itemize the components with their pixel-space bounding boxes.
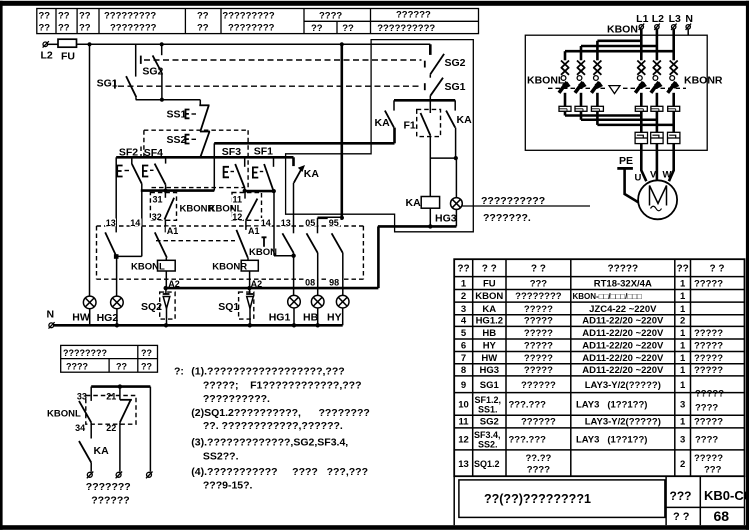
svg-text:N: N (47, 309, 55, 321)
svg-text:PE: PE (619, 155, 633, 167)
svg-text:LAY3 (1??1??): LAY3 (1??1??) (576, 435, 647, 446)
wire output 2 (656, 111, 659, 132)
contactor KBONL pole 2 (575, 61, 587, 107)
pin A1 left (166, 227, 179, 235)
svg-text:1: 1 (680, 417, 686, 428)
svg-text:???????: ??????? (86, 481, 131, 493)
svg-text:KBONR: KBONR (212, 262, 247, 273)
svg-text:?????: ????? (524, 341, 553, 352)
junction KA coil (428, 224, 432, 228)
terminal N (685, 13, 693, 30)
wire HY to N (342, 308, 344, 325)
table row 7 (461, 353, 723, 364)
svg-text:SF1: SF1 (254, 146, 273, 158)
linkage dashed coils (156, 240, 235, 242)
svg-text:??: ?? (39, 11, 51, 22)
contact KBON aux left (155, 232, 167, 257)
contactor KBONR pole 2 (651, 61, 663, 107)
wire output 1 (640, 111, 643, 132)
svg-text:SG2: SG2 (480, 417, 499, 428)
svg-text:SS2: SS2 (167, 134, 187, 146)
junction SQ1/N (248, 323, 252, 327)
svg-text:??????????.: ??????????. (203, 393, 270, 405)
svg-text:L1: L1 (636, 13, 648, 25)
svg-text:AD11-22/20 ~220V: AD11-22/20 ~220V (582, 328, 664, 339)
junction A2 right (247, 286, 251, 290)
svg-text:??????????: ?????????? (377, 23, 435, 34)
svg-text:KA: KA (406, 197, 422, 209)
svg-text:???: ??? (670, 489, 692, 503)
svg-text:HY: HY (327, 312, 342, 324)
svg-text:????????: ???????? (63, 348, 107, 358)
svg-text:1: 1 (680, 341, 686, 352)
linkage dashed aux (86, 396, 136, 425)
bus coil return (378, 225, 457, 228)
terminal L2 (41, 41, 53, 61)
linkage dashed SG2 (144, 59, 422, 61)
pin 95 (328, 218, 341, 227)
svg-text:(2)SQ1.2??????????, ?????: (2)SQ1.2??????????, ???????? (191, 407, 369, 419)
svg-text:???????.: ???????. (483, 212, 531, 224)
contact KA ladder (294, 157, 320, 183)
junction link (454, 156, 458, 160)
linkage symbol triangle (609, 86, 620, 94)
lamp HG2 (97, 296, 124, 324)
pin 05 (304, 218, 317, 227)
svg-text:HY: HY (483, 341, 497, 352)
wire HB to N (317, 308, 319, 325)
wire HG2 to N (116, 309, 118, 326)
wire 14 link (116, 255, 142, 257)
svg-text:U: U (635, 173, 642, 184)
svg-text:??????????: ?????????? (481, 195, 545, 207)
svg-text:??: ?? (311, 23, 323, 34)
svg-text:1: 1 (680, 291, 686, 302)
svg-text:FU: FU (61, 51, 75, 63)
contact KA left branch (375, 100, 395, 129)
svg-text:HG3: HG3 (435, 213, 457, 225)
svg-text:HW: HW (72, 312, 90, 324)
svg-text:?????: ????? (694, 365, 723, 376)
svg-text:??????: ?????? (521, 380, 556, 391)
terminal hook KBON (262, 237, 267, 246)
bus output merge 1 (565, 111, 641, 115)
wire coil/lamp link (430, 157, 456, 159)
contact F1 (404, 100, 441, 136)
bus 05/95 feed (318, 217, 343, 220)
table row 6 (461, 341, 723, 352)
svg-text:HW: HW (481, 353, 497, 364)
svg-text:JZC4-22 ~220V: JZC4-22 ~220V (589, 304, 657, 315)
svg-text:????: ???? (66, 362, 88, 372)
svg-text:SQ2: SQ2 (141, 301, 162, 313)
wire SF2 out (141, 184, 143, 257)
svg-text:9: 9 (461, 380, 466, 391)
overload element 3 (591, 106, 603, 111)
svg-text:????: ???? (319, 11, 342, 22)
title block (454, 476, 744, 525)
pin 14 left (130, 219, 142, 227)
svg-text:RT18-32X/4A: RT18-32X/4A (594, 279, 652, 290)
svg-text:3: 3 (461, 304, 466, 315)
svg-text:????????: ???????? (515, 291, 562, 302)
terminal N (47, 309, 55, 329)
legend table (61, 345, 158, 372)
svg-text:KBONL: KBONL (47, 409, 81, 420)
switch SS2 (167, 132, 211, 158)
svg-text:? ?: ? ? (482, 264, 497, 275)
svg-text:??: ?? (342, 23, 354, 34)
svg-text:2: 2 (680, 316, 685, 327)
contact KA aux (79, 441, 109, 463)
wire L3 drop (672, 29, 675, 60)
wire SF3 out (244, 188, 246, 191)
svg-text:8: 8 (461, 365, 466, 376)
svg-text:SF4: SF4 (144, 147, 163, 159)
limit switch SQ1 (218, 288, 254, 325)
svg-text:??: ?? (457, 264, 469, 275)
svg-text:????????: ???????? (228, 23, 275, 34)
svg-text:5: 5 (461, 328, 467, 339)
svg-text:3: 3 (680, 435, 685, 446)
junction aux top (118, 384, 122, 388)
wire to terminal 1 (90, 463, 92, 472)
wire to HG1 (293, 253, 295, 296)
svg-text:LAY3 (1??1??): LAY3 (1??1??) (576, 400, 647, 411)
svg-text:??.??: ??.?? (525, 453, 551, 464)
junction SF1 (272, 189, 276, 193)
svg-text:?????; F1????????????,???: ?????; F1????????????,??? (203, 379, 362, 391)
svg-text:68: 68 (714, 508, 730, 524)
wire 13-14 column (115, 157, 117, 232)
table row 5 (461, 328, 723, 339)
wire KBONR A2 (249, 271, 251, 288)
lamp HG1 (269, 295, 301, 323)
bus A2 (166, 287, 379, 290)
bus output merge 3 (597, 111, 673, 125)
wire F1 out (429, 135, 431, 196)
svg-text:08: 08 (305, 278, 315, 288)
ground PE (617, 155, 638, 202)
svg-text:98: 98 (329, 278, 339, 288)
svg-text:13: 13 (458, 459, 469, 470)
annotation leader line (462, 205, 590, 207)
svg-text:SS2??.: SS2??. (203, 451, 239, 463)
svg-text:?????: ????? (524, 316, 553, 327)
switch SG1 right (425, 74, 466, 96)
svg-text:?:: ?: (174, 366, 184, 378)
wire L2 to FU (48, 43, 58, 45)
svg-text:KBON: KBON (607, 24, 638, 36)
wire KA feeder column (340, 44, 343, 218)
wire top rail L (77, 43, 431, 45)
wire left bus (89, 44, 91, 296)
table row 1 (461, 279, 723, 290)
lamp HW (72, 296, 96, 323)
junction 13/14 right (291, 254, 295, 258)
pushbutton SF2 (117, 157, 142, 184)
bus SG1 out (394, 99, 455, 102)
svg-text:????????: ???????? (110, 23, 157, 34)
wire output 3 (672, 111, 675, 132)
svg-text:?????: ????? (694, 279, 723, 290)
terminal X3 (146, 472, 153, 479)
pushbutton enclosure top edge wire (214, 142, 394, 145)
svg-text:HG3: HG3 (480, 365, 500, 376)
svg-text:11: 11 (458, 417, 469, 428)
svg-text:? ?: ? ? (673, 511, 690, 523)
contact KBON aux 13-14 right (282, 233, 293, 253)
svg-text:3: 3 (680, 400, 685, 411)
junction top rail / left bus (87, 42, 91, 46)
switch SG1 left (97, 44, 137, 97)
svg-text:L2: L2 (41, 50, 53, 62)
svg-text:A1: A1 (167, 226, 179, 236)
svg-text:?????: ????? (694, 453, 723, 464)
limit switch SQ2 (141, 288, 175, 325)
wire left bank drop (596, 41, 599, 61)
svg-text:??: ?? (116, 362, 127, 372)
svg-text:14: 14 (130, 218, 140, 228)
svg-text:???: ??? (530, 279, 548, 290)
svg-text:1: 1 (461, 279, 467, 290)
switch SS1 (167, 100, 210, 132)
wire 34 (90, 422, 92, 438)
svg-text:14: 14 (261, 218, 271, 228)
svg-text:SG2: SG2 (445, 57, 466, 69)
switch SG2 left (141, 44, 164, 77)
rail SF row (116, 156, 293, 159)
contact KA aux 95-98 (332, 233, 343, 253)
svg-text:AD11-22/20 ~220V: AD11-22/20 ~220V (582, 341, 664, 352)
svg-text:13: 13 (281, 218, 291, 228)
svg-text:SS2.: SS2. (478, 440, 498, 450)
power box enclosure (525, 35, 707, 150)
table row 11 (458, 417, 723, 428)
wire motor V (656, 144, 659, 181)
table row 12 (458, 430, 718, 450)
linkage dashed interlock row (152, 187, 246, 189)
svg-text:2: 2 (680, 459, 685, 470)
svg-text:1: 1 (680, 328, 686, 339)
svg-text:??: ?? (197, 23, 209, 34)
svg-text:31: 31 (153, 195, 163, 205)
wire to HG2 (116, 256, 118, 296)
table row 4 (461, 316, 685, 327)
terminal L3 (669, 13, 681, 30)
svg-text:???9-15?.: ???9-15?. (203, 480, 253, 492)
lamp HG3 (435, 198, 462, 225)
contactor KBONR pole 3 (668, 61, 680, 107)
svg-text:KBONL: KBONL (131, 262, 165, 273)
svg-text:13: 13 (106, 218, 116, 228)
svg-text:SG1: SG1 (445, 81, 466, 93)
contactor KBONR pole 1 (635, 61, 647, 107)
svg-text:AD11-22/20 ~220V: AD11-22/20 ~220V (582, 365, 664, 376)
wire KBONL A2 (165, 271, 167, 288)
table header row (457, 264, 724, 275)
svg-text:95: 95 (329, 218, 339, 228)
svg-text:HB: HB (303, 312, 319, 324)
wire KA out (293, 183, 295, 234)
svg-text:?????????: ????????? (104, 11, 156, 22)
svg-text:???: ??? (704, 465, 722, 476)
svg-text:? ?: ? ? (710, 264, 725, 275)
overload element 4 (635, 106, 647, 111)
svg-text:AD11-22/20 ~220V: AD11-22/20 ~220V (582, 353, 664, 364)
wire KA coil A2 (429, 208, 431, 226)
svg-text:SQ1: SQ1 (218, 301, 239, 313)
svg-text:KB0-C0: KB0-C0 (704, 488, 749, 503)
junction feeder (340, 216, 344, 220)
svg-text:2: 2 (461, 291, 466, 302)
svg-text:??: ?? (197, 11, 209, 22)
pin 14 right (260, 218, 272, 227)
svg-text:KBON: KBON (249, 247, 277, 258)
svg-text:SF3: SF3 (222, 146, 241, 158)
wire KBONL branch A1 (164, 220, 166, 233)
pushbutton SF3 (224, 157, 245, 188)
overload element 5 (651, 106, 663, 111)
svg-text:SF2: SF2 (119, 147, 138, 159)
wire aux top (91, 385, 150, 388)
thermal relay element 1 (635, 132, 647, 143)
svg-text:???.???: ???.??? (509, 400, 547, 411)
junction HG1/N (292, 323, 296, 327)
svg-text:(4).??????????? ???? ???: (4).??????????? ???? ???,??? (191, 466, 368, 478)
svg-text:?????: ????? (694, 328, 723, 339)
contact KBONL aux 33-34 (74, 387, 92, 434)
svg-text:?????: ????? (695, 389, 724, 400)
motor M (638, 180, 677, 219)
contact KBONL NC 11-12 (232, 191, 262, 222)
svg-text:4: 4 (461, 316, 467, 327)
svg-text:?????: ????? (694, 353, 723, 364)
svg-text:05: 05 (305, 218, 315, 228)
coil KBONL (131, 258, 175, 273)
svg-text:?????: ????? (524, 304, 553, 315)
lamp HB (303, 295, 324, 323)
bus output merge 2 (581, 111, 657, 120)
contactor KBONL pole 3 (591, 61, 603, 107)
wire SG2 out (161, 73, 163, 100)
svg-text:??: ?? (676, 264, 688, 275)
contact KBON aux right (236, 230, 247, 258)
wire HG3 branch (455, 158, 457, 197)
svg-text:SS1.: SS1. (478, 405, 498, 415)
svg-text:???.???: ???.??? (509, 435, 547, 446)
coil KBONR (212, 258, 258, 273)
wire HW to N rail (89, 309, 91, 326)
wire motor W (669, 144, 674, 182)
svg-text:??. ????????????,??????.: ??. ????????????,??????. (203, 420, 343, 432)
contact aux 21-22 (105, 387, 132, 434)
pin 08 (304, 279, 317, 287)
svg-text:7: 7 (461, 353, 466, 364)
svg-text:LAY3-Y/2(?????): LAY3-Y/2(?????) (585, 380, 661, 391)
svg-text:SF1.2,: SF1.2, (475, 395, 502, 405)
svg-text:HB: HB (482, 328, 496, 339)
table row 8 (461, 365, 723, 376)
svg-text:KBON-□□/□□□/□□□: KBON-□□/□□□/□□□ (573, 292, 642, 301)
svg-text:W: W (663, 170, 672, 181)
wire SG1 out (429, 96, 431, 101)
svg-text:?????: ????? (608, 264, 639, 275)
junction SF4/31 branch (163, 189, 167, 193)
wire HG3 to bus (455, 209, 457, 226)
overload element 2 (575, 106, 587, 111)
wire motor U (641, 144, 646, 182)
table row 2 (461, 291, 686, 302)
coil KA (406, 197, 440, 210)
svg-text:21: 21 (106, 391, 116, 401)
bus phase crossover 3 (565, 50, 674, 53)
svg-text:??(??)????????1: ??(??)????????1 (484, 492, 591, 506)
terminal X2 (116, 472, 123, 479)
control enclosure outline (286, 40, 474, 232)
wire to terminal 2 (119, 422, 121, 471)
svg-text:????: ???? (695, 435, 718, 446)
svg-text:KA: KA (304, 168, 320, 180)
wire L2 drop (656, 29, 659, 60)
junction A2 left (164, 286, 168, 290)
wire L1 drop (640, 29, 643, 60)
svg-text:KA: KA (94, 445, 110, 457)
contact KA aux 05-08 (307, 218, 318, 253)
thermal relay element 3 (668, 132, 680, 143)
contact KBONL aux 13-14 (105, 232, 116, 256)
wire KA right out (455, 128, 457, 159)
svg-text:????: ???? (695, 403, 718, 414)
junction HB/N (316, 323, 320, 327)
wire KA left out (393, 128, 396, 144)
svg-text:KA: KA (375, 117, 391, 129)
wire A2 riser (377, 226, 380, 288)
svg-text:SG1: SG1 (97, 78, 118, 90)
fuse FU (58, 39, 77, 62)
svg-text:1: 1 (680, 353, 686, 364)
parts list table grid (454, 259, 744, 476)
pin A1 right (247, 227, 260, 235)
svg-text:KBONL: KBONL (527, 75, 565, 87)
svg-text:34: 34 (75, 423, 85, 433)
svg-text:KA: KA (482, 304, 496, 315)
svg-text:SQ1.2: SQ1.2 (474, 459, 500, 469)
svg-text:KA: KA (457, 114, 473, 126)
svg-text:32: 32 (152, 212, 162, 222)
svg-text:FU: FU (483, 279, 496, 290)
svg-text:?????: ????? (524, 328, 553, 339)
svg-text:(3).?????????????,SG2,SF3.4,: (3).?????????????,SG2,SF3.4, (191, 437, 348, 449)
pin 13 right (280, 218, 292, 227)
svg-text:SG2: SG2 (142, 66, 163, 78)
svg-text:10: 10 (458, 400, 469, 411)
svg-text:??: ?? (79, 11, 91, 22)
wire left bank drop (564, 51, 567, 60)
wire SF4 out (165, 185, 167, 191)
wire KBONR branch (245, 220, 247, 230)
linkage dashed poles (548, 87, 606, 89)
pushbutton SF4 (143, 157, 166, 184)
svg-text:N: N (685, 13, 693, 25)
wire N drop (687, 29, 689, 35)
pin 13 left (105, 219, 116, 227)
svg-text:?????: ????? (694, 341, 723, 352)
drawing header strip table (37, 9, 479, 35)
divider dashed SF2/SF4 (140, 147, 142, 158)
svg-text:KBON: KBON (475, 291, 503, 302)
thermal relay element 2 (651, 132, 663, 143)
